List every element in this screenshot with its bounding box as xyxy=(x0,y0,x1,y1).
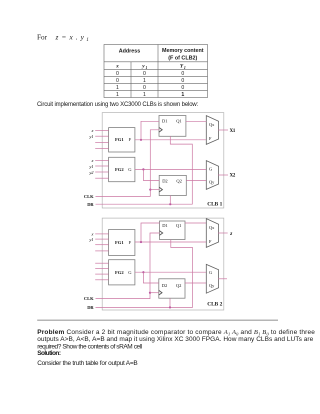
svg-text:x: x xyxy=(91,158,94,163)
svg-text:1: 1 xyxy=(116,92,119,98)
junction node on F wire (CLB2) xyxy=(140,241,142,243)
junction node on G wire (CLB1) xyxy=(142,168,144,170)
wire Q2 to mux M2 (CLB2) xyxy=(185,282,206,284)
junction node on G wire (CLB2) xyxy=(142,271,144,273)
svg-text:y1: y1 xyxy=(88,164,93,169)
wire CLK branch to FF2 clock (CLB2) xyxy=(150,292,159,294)
input labels x,y1,y2 (CLB1 FG2) xyxy=(88,158,94,175)
svg-text:FG2: FG2 xyxy=(115,167,124,172)
clock pin triangle FF2 (CLB1) xyxy=(159,187,162,192)
wire G branch to D2 input (CLB1) xyxy=(143,169,159,180)
input stubs FG2 (CLB2) xyxy=(95,263,108,280)
svg-text:1: 1 xyxy=(116,85,119,91)
wire F: FG1 output to mux M1 (CLB2) xyxy=(135,241,206,243)
function generator FG2 (CLB1) xyxy=(109,157,135,181)
wire X2 mux output (CLB1) xyxy=(218,174,228,176)
junction node DR to FF2 reset (CLB2) xyxy=(169,306,171,308)
svg-text:y1: y1 xyxy=(88,134,93,139)
function generator FG2 (CLB2) xyxy=(109,260,135,285)
svg-text:Circuit implementation using t: Circuit implementation using two XC3000 … xyxy=(37,102,199,108)
clock pin triangle FF1 (CLB1) xyxy=(159,128,162,133)
svg-text:Q1: Q1 xyxy=(176,119,182,124)
wire F branch to D1 input (CLB2) xyxy=(141,223,160,242)
wire z mux output (CLB2) xyxy=(218,232,228,234)
svg-text:x: x xyxy=(91,128,94,133)
svg-text:x: x xyxy=(91,232,94,237)
svg-text:1: 1 xyxy=(143,92,146,98)
clock pin triangle FF2 (CLB2) xyxy=(159,290,162,295)
mux M1 upper (CLB1) xyxy=(206,116,218,145)
svg-text:Address: Address xyxy=(119,49,141,55)
wire CLK branch to FF2 clock (CLB1) xyxy=(150,189,159,191)
wire DR branch to FF2 reset (CLB1) xyxy=(169,196,171,205)
svg-text:z: z xyxy=(229,231,232,237)
wire mux M2 output stub (CLB2) xyxy=(218,278,227,280)
mux M1 upper (CLB2) xyxy=(206,219,218,248)
mux M2 lower (CLB2) xyxy=(206,264,218,293)
wire DR trunk and riser to FF1 reset (CLB1) xyxy=(96,136,193,204)
flip-flop D2/Q2 (CLB1) xyxy=(159,175,186,195)
wire CLK trunk (CLB1) xyxy=(96,130,160,197)
svg-text:CLK: CLK xyxy=(84,194,94,199)
CLB 1 outer box xyxy=(102,113,224,208)
svg-text:FG2: FG2 xyxy=(115,270,124,275)
wire G: FG2 output to mux M2 (CLB1) xyxy=(135,168,206,170)
svg-text:D1: D1 xyxy=(162,223,168,228)
svg-text:Q2: Q2 xyxy=(176,283,182,288)
wire X1 mux output (CLB1) xyxy=(218,129,228,131)
svg-text:0: 0 xyxy=(116,78,119,84)
svg-text:0: 0 xyxy=(116,71,119,77)
wire G: FG2 output to mux M2 (CLB2) xyxy=(135,271,206,273)
svg-text:(F of CLB2): (F of CLB2) xyxy=(168,55,197,61)
svg-text:Solution:: Solution: xyxy=(37,350,61,357)
svg-text:D2: D2 xyxy=(162,283,168,288)
svg-text:G: G xyxy=(209,270,212,275)
svg-text:0: 0 xyxy=(181,85,184,91)
input stubs FG2 (CLB1) xyxy=(95,160,108,178)
input labels x,y1 (CLB2 FG1) xyxy=(88,232,93,242)
svg-text:DR: DR xyxy=(87,305,94,310)
wire DR branch to FF2 reset (CLB2) xyxy=(169,298,171,307)
svg-text:F: F xyxy=(129,240,132,245)
svg-text:FG1: FG1 xyxy=(115,137,124,142)
svg-text:DR: DR xyxy=(87,202,94,207)
svg-text:Q1: Q1 xyxy=(176,223,182,228)
junction node on F wire (CLB1) xyxy=(140,139,142,141)
svg-text:X2: X2 xyxy=(230,174,236,179)
svg-text:FG1: FG1 xyxy=(115,240,124,245)
svg-text:Consider the truth table for o: Consider the truth table for output A=B xyxy=(37,360,137,367)
junction node CLK to FF2 (CLB1) xyxy=(149,189,151,191)
flip-flop D1/Q1 (CLB1) xyxy=(159,116,186,137)
problem statement paragraph xyxy=(37,329,315,367)
svg-text:x: x xyxy=(115,64,119,70)
svg-text:0: 0 xyxy=(181,78,184,84)
flip-flop D2/Q2 (CLB2) xyxy=(159,279,185,298)
svg-text:0: 0 xyxy=(181,71,184,77)
input stubs FG1 (CLB1) xyxy=(95,130,108,148)
function generator FG1 (CLB1) xyxy=(109,128,135,152)
svg-text:X1: X1 xyxy=(230,129,236,134)
svg-text:z = x . y: z = x . y xyxy=(55,33,85,42)
svg-text:1: 1 xyxy=(181,92,184,98)
svg-text:CLB 1: CLB 1 xyxy=(207,201,222,207)
CLB 2 outer box xyxy=(102,218,224,310)
svg-text:G: G xyxy=(209,166,212,171)
svg-text:Qx: Qx xyxy=(209,225,215,230)
svg-text:y2: y2 xyxy=(88,170,94,175)
svg-text:0: 0 xyxy=(143,85,146,91)
svg-text:0: 0 xyxy=(143,71,146,77)
svg-text:D2: D2 xyxy=(162,178,168,183)
wire Q2 to mux M2 (CLB1) xyxy=(186,180,206,182)
wire Q1 to mux M1 (CLB2) xyxy=(185,222,206,224)
truth table for F of CLB2 xyxy=(104,45,208,98)
wire DR trunk and riser to FF1 reset (CLB2) xyxy=(96,240,193,308)
svg-text:CLB 2: CLB 2 xyxy=(207,301,222,307)
svg-text:For: For xyxy=(37,34,48,42)
svg-text:outputs A>B, A<B, A=B and map: outputs A>B, A<B, A=B and map it using X… xyxy=(37,336,313,343)
wire G branch to D2 input (CLB2) xyxy=(143,272,158,283)
svg-text:Qx: Qx xyxy=(209,122,215,127)
svg-text:1: 1 xyxy=(184,66,186,70)
svg-text:Qy: Qy xyxy=(209,283,215,288)
mux M2 lower (CLB1) xyxy=(206,161,218,190)
clock pin triangle FF1 (CLB2) xyxy=(160,231,163,236)
wire F branch to D1 input (CLB1) xyxy=(141,121,159,140)
wire F: FG1 output to mux M1 (CLB1) xyxy=(135,139,206,141)
svg-text:1: 1 xyxy=(86,37,89,43)
svg-text:1: 1 xyxy=(143,78,146,84)
svg-text:1: 1 xyxy=(146,66,148,70)
function generator FG1 (CLB2) xyxy=(109,230,135,256)
svg-text:Qy: Qy xyxy=(209,179,215,184)
wire Q1 to mux M1 (CLB1) xyxy=(186,120,206,122)
svg-text:y1: y1 xyxy=(88,237,93,242)
junction node DR to FF2 reset (CLB1) xyxy=(169,203,171,205)
wire CLK trunk (CLB2) xyxy=(96,233,160,299)
svg-text:Memory content: Memory content xyxy=(162,48,204,54)
junction node CLK to FF2 (CLB2) xyxy=(149,292,151,294)
horizontal divider rule xyxy=(37,319,278,321)
input stubs FG1 (CLB2) xyxy=(95,234,108,251)
equation label: For z = x . y1 xyxy=(37,33,89,44)
svg-text:D1: D1 xyxy=(162,119,168,124)
flip-flop D1/Q1 (CLB2) xyxy=(160,221,186,240)
svg-text:Q2: Q2 xyxy=(176,178,182,183)
input labels x,y1 (CLB1 FG1) xyxy=(88,128,93,139)
svg-text:F: F xyxy=(129,137,132,142)
svg-text:CLK: CLK xyxy=(84,296,94,301)
